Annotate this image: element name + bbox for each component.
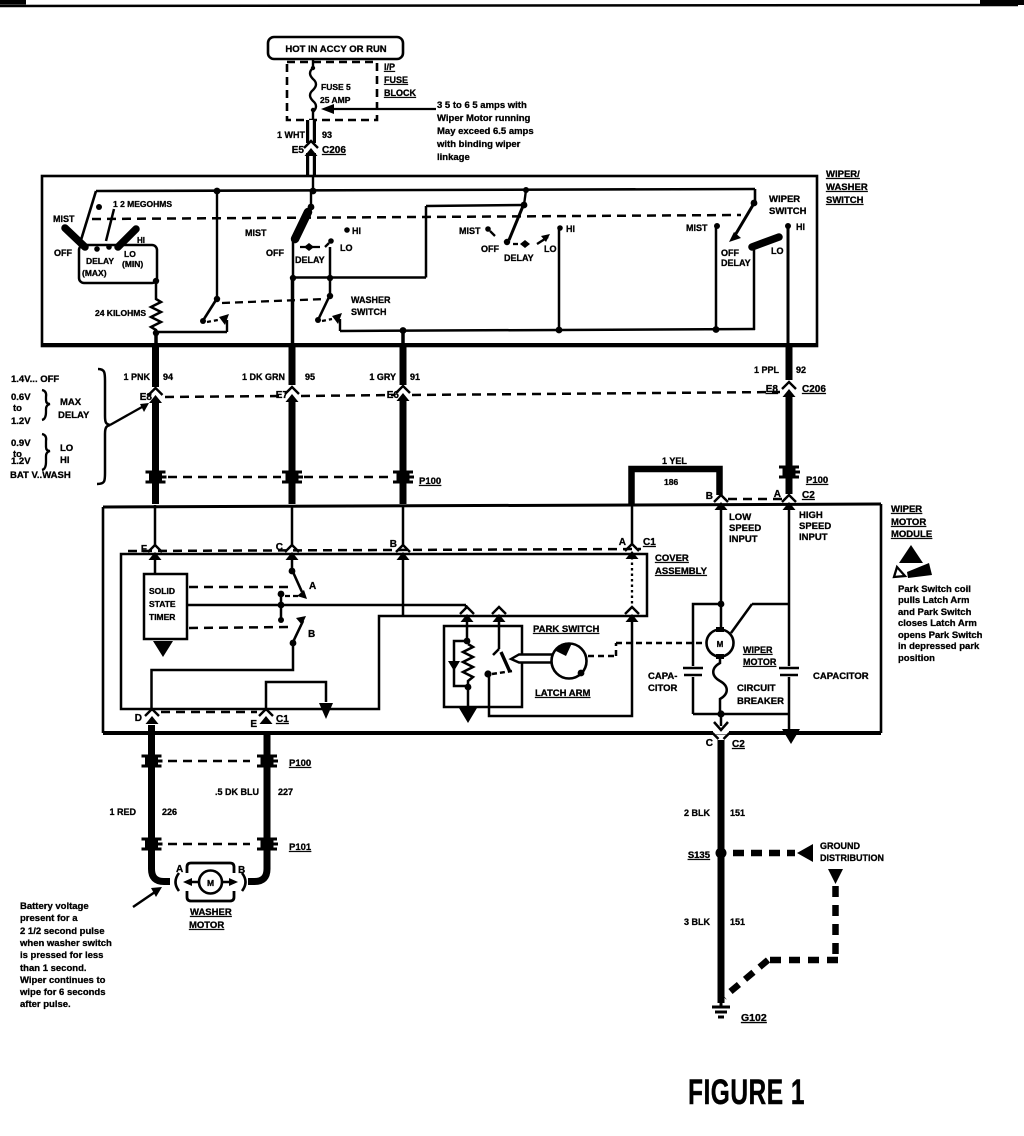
- svg-text:May exceed 6.5 amps: May exceed 6.5 amps: [437, 126, 534, 137]
- switch A: [289, 568, 317, 599]
- P100 dashed line: [168, 476, 392, 479]
- wire E7 inside box: [291, 278, 295, 349]
- connector into park contact: [492, 607, 506, 622]
- node: supply junction: [310, 188, 317, 195]
- GROUND DISTRIBUTION label: [820, 841, 884, 863]
- svg-text:CAPACITOR: CAPACITOR: [813, 671, 869, 682]
- connector P101 row: [142, 839, 312, 853]
- svg-text:2 BLK: 2 BLK: [684, 808, 711, 818]
- S2 LO contact: [325, 238, 334, 278]
- WASHER SWITCH label: [351, 295, 391, 317]
- svg-text:1.2V: 1.2V: [11, 456, 31, 467]
- voltage table small bracket 1: [42, 390, 50, 420]
- resistor 24 KILOHMS: [95, 283, 161, 336]
- svg-text:M: M: [207, 878, 214, 888]
- wire resistor bottom to S1 pole2 contact: [156, 331, 227, 333]
- wire 1 DK GRN 95 (E7): [242, 346, 315, 385]
- CIRCUIT BREAKER label: [737, 683, 784, 707]
- svg-text:1.4V... OFF: 1.4V... OFF: [11, 374, 59, 385]
- svg-text:1 2 MEGOHMS: 1 2 MEGOHMS: [113, 199, 172, 209]
- park ground arrow: [459, 687, 477, 723]
- connector C: [276, 542, 299, 560]
- voltage table: [10, 374, 90, 481]
- S2 delay diamond contact: [300, 243, 320, 251]
- svg-text:MIST: MIST: [686, 223, 708, 233]
- svg-text:C1: C1: [276, 714, 289, 725]
- S1 DELAY labels: [82, 236, 145, 278]
- svg-text:3 BLK: 3 BLK: [684, 917, 711, 927]
- svg-text:MOTOR: MOTOR: [743, 657, 777, 667]
- latch cam circle: [552, 643, 587, 679]
- connector P100 on DK GRN wire: [282, 472, 303, 482]
- potentiometer 1.2 MEGOHMS arrow: [106, 209, 114, 241]
- voltage table small bracket 2: [42, 434, 50, 470]
- svg-text:I/P: I/P: [384, 62, 395, 72]
- svg-text:A: A: [619, 537, 626, 548]
- svg-text:ASSEMBLY: ASSEMBLY: [655, 566, 708, 577]
- capacitor/breaker bottom bus: [693, 713, 789, 716]
- svg-text:G102: G102: [741, 1012, 767, 1024]
- I/P FUSE BLOCK label: [384, 62, 416, 98]
- svg-text:E8: E8: [140, 392, 153, 403]
- svg-text:MOTOR: MOTOR: [189, 920, 224, 931]
- wiper motor M: [707, 627, 734, 659]
- svg-text:opens Park Switch: opens Park Switch: [898, 630, 983, 641]
- svg-text:pulls Latch Arm: pulls Latch Arm: [898, 595, 969, 606]
- node: switch3 stub: [523, 187, 529, 193]
- svg-text:CITOR: CITOR: [648, 683, 678, 694]
- wire 3 BLK 151: [684, 917, 745, 927]
- S1 wiper blob MIST-OFF: [65, 228, 85, 247]
- svg-text:24 KILOHMS: 24 KILOHMS: [95, 308, 146, 318]
- timer output wire to park coil: [187, 605, 466, 609]
- right capacitor: [779, 668, 799, 729]
- svg-text:1 WHT: 1 WHT: [277, 130, 306, 140]
- svg-text:C206: C206: [322, 145, 346, 156]
- svg-text:LO: LO: [771, 246, 784, 256]
- svg-text:FUSE 5: FUSE 5: [321, 82, 351, 92]
- connector E6: [387, 386, 410, 401]
- svg-text:91: 91: [410, 372, 420, 382]
- svg-text:CAPA-: CAPA-: [648, 671, 677, 682]
- delta symbol: [894, 545, 932, 578]
- S2 arm output wire: [292, 241, 295, 278]
- S2 HI contact: [344, 227, 350, 233]
- low speed wire into motor: [718, 505, 725, 630]
- svg-text:.5 DK BLU: .5 DK BLU: [215, 787, 259, 797]
- HIGH SPEED INPUT label: [799, 510, 831, 543]
- washer motor frame: [187, 863, 234, 901]
- battery note text: [19, 901, 112, 1010]
- svg-text:with binding wiper: with binding wiper: [436, 139, 521, 150]
- svg-text:A: A: [176, 864, 183, 875]
- svg-text:INPUT: INPUT: [729, 534, 758, 545]
- C2 dashed link: [728, 498, 782, 501]
- connector P100 on GRY wire + label: [393, 472, 441, 487]
- svg-text:WIPER: WIPER: [891, 504, 922, 515]
- svg-text:OFF: OFF: [721, 248, 739, 258]
- svg-text:is pressed for less: is pressed for less: [20, 950, 103, 961]
- svg-text:HOT IN ACCY OR RUN: HOT IN ACCY OR RUN: [285, 44, 386, 55]
- svg-text:OFF: OFF: [54, 248, 72, 258]
- wire B switch to D: [152, 643, 294, 711]
- cover assembly top dashed line: [128, 549, 641, 551]
- svg-text:1 PPL: 1 PPL: [754, 365, 780, 375]
- svg-text:SOLID: SOLID: [149, 586, 175, 596]
- connector E8 C206: [766, 382, 827, 397]
- svg-text:wipe for 6 seconds: wipe for 6 seconds: [19, 987, 106, 998]
- washer motor arrows: [183, 878, 238, 886]
- svg-text:226: 226: [162, 807, 177, 817]
- svg-text:PARK SWITCH: PARK SWITCH: [533, 624, 599, 635]
- svg-text:1 YEL: 1 YEL: [662, 456, 687, 466]
- svg-text:C: C: [706, 738, 713, 749]
- svg-text:LATCH ARM: LATCH ARM: [535, 688, 590, 699]
- connector C C2: [706, 733, 745, 750]
- connector A C2: [774, 489, 815, 510]
- svg-text:151: 151: [730, 808, 745, 818]
- svg-text:GROUND: GROUND: [820, 841, 860, 851]
- WASHER MOTOR label: [189, 907, 232, 931]
- svg-text:MIST: MIST: [245, 228, 267, 238]
- latch arm dashed link to motor: [588, 643, 704, 656]
- svg-text:SPEED: SPEED: [799, 521, 831, 532]
- timer ground arrow: [153, 641, 173, 657]
- svg-text:FIGURE 1: FIGURE 1: [688, 1074, 805, 1112]
- svg-text:P100: P100: [806, 475, 828, 486]
- WIPER MOTOR label: [743, 645, 777, 667]
- svg-text:DELAY: DELAY: [504, 253, 534, 263]
- svg-text:SWITCH: SWITCH: [769, 206, 807, 217]
- wire 1 YEL 186 loop: [632, 456, 720, 505]
- svg-text:BLOCK: BLOCK: [384, 88, 416, 98]
- svg-text:3 5 to 6 5 amps with: 3 5 to 6 5 amps with: [437, 100, 527, 111]
- top bus wire inside switch: [96, 189, 755, 205]
- svg-text:HI: HI: [60, 455, 70, 466]
- connector D: [135, 709, 159, 724]
- CAPA-CITOR label: [648, 671, 678, 694]
- svg-text:TIMER: TIMER: [149, 612, 175, 622]
- delay bus wire: [290, 205, 524, 281]
- wire E jog with arrow: [266, 682, 333, 719]
- svg-text:WIPER/: WIPER/: [826, 169, 860, 180]
- connector B C2: [706, 491, 728, 510]
- cover assembly box: [121, 554, 647, 709]
- battery note arrow: [133, 887, 162, 907]
- S2 labels: [245, 226, 361, 265]
- connector E C1: [250, 709, 289, 730]
- svg-text:WIPER: WIPER: [743, 645, 773, 655]
- S3 HI contact and wire: [557, 225, 563, 330]
- svg-text:1 DK GRN: 1 DK GRN: [242, 372, 285, 382]
- wire E below module: [248, 733, 267, 882]
- svg-text:MOTOR: MOTOR: [891, 517, 926, 528]
- svg-text:25 AMP: 25 AMP: [320, 95, 351, 105]
- svg-text:D: D: [135, 713, 142, 724]
- svg-text:position: position: [898, 653, 935, 664]
- S4 labels: [686, 222, 805, 268]
- svg-text:C2: C2: [732, 739, 745, 750]
- switch B: [290, 616, 316, 646]
- svg-text:LO: LO: [340, 243, 353, 253]
- wire A to park contact: [489, 617, 632, 716]
- S4 MIST contact wire: [714, 223, 720, 330]
- connector E8: [140, 388, 163, 403]
- svg-text:CIRCUIT: CIRCUIT: [737, 683, 776, 694]
- HOT IN ACCY OR RUN feed box: [268, 37, 403, 59]
- svg-text:1.2V: 1.2V: [11, 416, 31, 427]
- S1 pole2 wire: [216, 191, 218, 299]
- svg-text:A: A: [309, 581, 316, 592]
- svg-text:C2: C2: [802, 490, 815, 501]
- svg-text:DELAY: DELAY: [86, 256, 114, 266]
- washer motor terminal arcs: [176, 873, 180, 891]
- timer dashed to B: [189, 627, 292, 628]
- wire E6 inside box: [401, 331, 405, 349]
- svg-text:Wiper Motor running: Wiper Motor running: [437, 113, 531, 124]
- WIPER/WASHER SWITCH label: [826, 169, 868, 206]
- svg-text:MODULE: MODULE: [891, 529, 932, 540]
- svg-text:C: C: [276, 542, 283, 553]
- dashed link to ground distribution: [733, 844, 813, 862]
- S1 pole2 switch: [200, 296, 229, 332]
- svg-text:M: M: [717, 640, 724, 649]
- I/P fuse block dashed box: [287, 62, 377, 120]
- connector E7: [276, 387, 299, 402]
- svg-text:WASHER: WASHER: [826, 182, 868, 193]
- connector E5 C206: [292, 141, 347, 156]
- amps note arrow into fuse: [321, 104, 436, 114]
- svg-text:C206: C206: [802, 384, 826, 395]
- arrow bracket to E8: [110, 403, 149, 425]
- washer/HI bus wire: [340, 326, 755, 334]
- park switch note text: [898, 584, 983, 664]
- svg-text:Battery voltage: Battery voltage: [20, 901, 89, 912]
- park moving arm: [484, 652, 512, 678]
- svg-text:F: F: [141, 544, 147, 555]
- svg-text:SWITCH: SWITCH: [826, 195, 864, 206]
- svg-text:B: B: [706, 491, 713, 502]
- svg-text:HI: HI: [796, 222, 805, 232]
- S3 LO contact: [537, 234, 550, 244]
- svg-text:E: E: [250, 719, 257, 730]
- S3 labels: [459, 224, 575, 263]
- ground distribution dashed path: [724, 869, 843, 997]
- wire labels .5 DK BLU 227: [215, 787, 293, 797]
- page top border line: [0, 5, 1018, 6]
- gang dashed link S1-washer: [222, 299, 326, 303]
- switch S1 pivot arm: [81, 191, 102, 240]
- park switch box: [444, 626, 522, 707]
- washer motor circle M: [199, 871, 222, 894]
- svg-text:linkage: linkage: [437, 152, 470, 163]
- svg-text:BREAKER: BREAKER: [737, 696, 784, 707]
- svg-text:Park Switch coil: Park Switch coil: [898, 584, 971, 595]
- svg-text:HI: HI: [137, 236, 145, 245]
- connector F: [141, 544, 162, 560]
- svg-text:LOW: LOW: [729, 512, 751, 523]
- timer dashed to A: [189, 586, 294, 589]
- node: switch1 pole2 junction: [214, 188, 221, 195]
- node: delay box output: [153, 278, 159, 284]
- latch arm bar: [511, 655, 553, 663]
- wire from fuse into box: [312, 176, 314, 191]
- svg-text:after pulse.: after pulse.: [20, 999, 71, 1010]
- WIPER SWITCH label: [769, 194, 807, 217]
- svg-text:C1: C1: [643, 537, 656, 548]
- wire B down to bus: [402, 558, 405, 616]
- svg-text:93: 93: [322, 130, 332, 140]
- svg-text:MAX: MAX: [60, 397, 82, 408]
- switch S2 pivot: [308, 191, 315, 210]
- svg-text:WASHER: WASHER: [351, 295, 391, 305]
- S3 delay diamond: [513, 240, 530, 248]
- LOW SPEED INPUT label: [729, 512, 761, 545]
- S2 wiper blob: [295, 212, 308, 239]
- connector P100 washer row: [142, 756, 312, 769]
- washer switch: [315, 278, 342, 331]
- svg-text:in depressed park: in depressed park: [898, 641, 980, 652]
- fuse 5 25 AMP fuse element: [310, 59, 351, 120]
- wire 1 PPL 92: [754, 346, 806, 380]
- svg-text:LO: LO: [544, 244, 557, 254]
- svg-text:92: 92: [796, 365, 806, 375]
- WIPER MOTOR MODULE label: [891, 504, 932, 540]
- wire E8 inside box: [154, 333, 158, 349]
- voltage table big bracket: [97, 369, 110, 484]
- svg-text:MIST: MIST: [459, 226, 481, 236]
- connector at cover exit: [625, 607, 639, 622]
- S3 MIST contact: [485, 226, 495, 236]
- svg-text:WASHER: WASHER: [190, 907, 232, 918]
- wire labels 1 RED 226: [109, 807, 177, 817]
- svg-text:B: B: [390, 539, 397, 550]
- C206 dashed gang line: [165, 392, 780, 397]
- wire 1 PNK 94 (E8): [123, 346, 173, 387]
- svg-text:FUSE: FUSE: [384, 75, 408, 85]
- svg-text:P100: P100: [289, 758, 311, 769]
- svg-text:S135: S135: [688, 850, 711, 861]
- svg-text:DELAY: DELAY: [295, 255, 325, 265]
- svg-text:1 GRY: 1 GRY: [369, 372, 396, 382]
- wire A through cover (dotted): [631, 557, 633, 608]
- svg-text:SPEED: SPEED: [729, 523, 761, 534]
- svg-text:E5: E5: [292, 145, 305, 156]
- washer feed wire D below module: [152, 725, 171, 882]
- svg-text:151: 151: [730, 917, 745, 927]
- right ground arrow: [782, 729, 800, 744]
- switch S3: [504, 202, 528, 246]
- S1 wiper blob LO-HI: [118, 229, 136, 247]
- svg-text:SWITCH: SWITCH: [351, 307, 387, 317]
- svg-text:E8: E8: [766, 384, 779, 395]
- svg-text:STATE: STATE: [149, 599, 176, 609]
- MIST dashed gang line: [92, 215, 741, 219]
- svg-text:B: B: [308, 629, 315, 640]
- svg-text:P100: P100: [419, 476, 441, 487]
- svg-text:INPUT: INPUT: [799, 532, 828, 543]
- svg-text:186: 186: [664, 477, 678, 487]
- amps note text: [436, 100, 534, 163]
- connector P100 on PPL wire: [779, 467, 828, 486]
- D-E dashed line: [161, 711, 257, 714]
- svg-text:227: 227: [278, 787, 293, 797]
- svg-text:2 1/2 second pulse: 2 1/2 second pulse: [20, 926, 104, 937]
- svg-text:1 RED: 1 RED: [109, 807, 136, 817]
- svg-text:COVER: COVER: [655, 553, 689, 564]
- ground wire 2 BLK 151: [684, 740, 745, 1003]
- svg-text:HIGH: HIGH: [799, 510, 823, 521]
- svg-text:MIST: MIST: [53, 214, 75, 224]
- S4 LO wiper blob: [752, 237, 779, 330]
- svg-text:DELAY: DELAY: [58, 410, 90, 421]
- COVER ASSEMBLY label: [655, 553, 708, 577]
- A-B link wire: [278, 591, 299, 623]
- wire C to switch A pivot: [291, 558, 294, 572]
- park coil left branch with contact arrow: [448, 641, 468, 686]
- wire C into module: [291, 505, 294, 546]
- svg-text:LO: LO: [60, 443, 73, 454]
- svg-text:(MIN): (MIN): [122, 259, 143, 269]
- svg-text:OFF: OFF: [481, 244, 499, 254]
- park fixed contact: [493, 617, 499, 655]
- svg-text:0.9V: 0.9V: [11, 438, 31, 449]
- S4 HI contact + PPL wire inside box: [785, 223, 791, 348]
- solid state timer box: [144, 574, 187, 639]
- park coil: [463, 617, 473, 690]
- wiper/washer switch box: [42, 176, 817, 346]
- S1 delay contacts: [94, 246, 100, 252]
- svg-text:Wiper continues to: Wiper continues to: [20, 975, 106, 986]
- svg-text:P101: P101: [289, 842, 312, 853]
- wire C to module edge: [713, 710, 729, 734]
- svg-text:LO: LO: [124, 249, 136, 259]
- svg-text:1 PNK: 1 PNK: [123, 372, 150, 382]
- svg-text:94: 94: [163, 372, 173, 382]
- svg-text:DISTRIBUTION: DISTRIBUTION: [820, 853, 884, 863]
- svg-text:closes Latch Arm: closes Latch Arm: [898, 618, 977, 629]
- svg-text:and Park Switch: and Park Switch: [898, 607, 972, 618]
- svg-text:than 1 second.: than 1 second.: [20, 963, 87, 974]
- svg-text:HI: HI: [566, 224, 575, 234]
- svg-text:HI: HI: [352, 226, 361, 236]
- svg-text:OFF: OFF: [266, 248, 284, 258]
- wire F into module: [154, 505, 157, 546]
- splice S135: [688, 848, 727, 862]
- connector A C1: [619, 537, 656, 559]
- wire B into module: [402, 505, 405, 546]
- connector B: [390, 539, 410, 560]
- wire A/C1 from YEL corner: [631, 505, 634, 545]
- wiper motor module box: [103, 504, 881, 733]
- ground G102: [712, 1000, 767, 1024]
- high speed wire: [731, 505, 789, 666]
- connector P100 on PNK wire: [146, 472, 167, 482]
- FIGURE 1 caption: [688, 1074, 805, 1112]
- circuit breaker: [713, 656, 727, 714]
- S1 DELAY range box: [79, 245, 157, 283]
- svg-text:present for a: present for a: [20, 913, 78, 924]
- svg-text:95: 95: [305, 372, 315, 382]
- svg-text:when washer switch: when washer switch: [19, 938, 112, 949]
- svg-text:DELAY: DELAY: [721, 258, 751, 268]
- svg-text:0.6V: 0.6V: [11, 392, 31, 403]
- wire 1 WHT 93 (hollow heavy): [277, 120, 332, 176]
- switch S4 wiper switch: [729, 200, 757, 242]
- wire 1 GRY 91 (E6): [369, 346, 420, 385]
- connector into park coil: [460, 607, 474, 622]
- left capacitor branch: [683, 604, 721, 714]
